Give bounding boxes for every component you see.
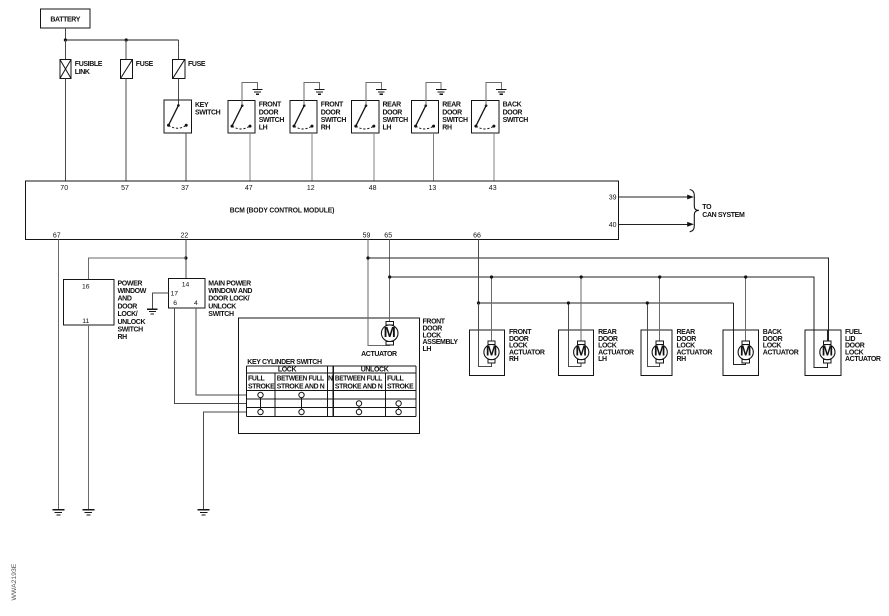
label N: [328, 376, 333, 383]
svg-text:RH: RH: [677, 356, 687, 363]
wire to fuse F2: [177, 40, 179, 59]
svg-text:BATTERY: BATTERY: [50, 17, 80, 24]
fusible link: [60, 59, 103, 78]
back door lock actuator box: [723, 329, 799, 376]
front door lock assembly LH box: [238, 318, 458, 434]
wire bus2 inside fuel lid box: [814, 330, 827, 367]
wire BCM pin 66 down: [478, 239, 480, 303]
svg-text:SWITCH: SWITCH: [118, 327, 144, 334]
pin 57 label: [121, 185, 129, 192]
label actuator: [361, 351, 397, 358]
pin 12 label: [307, 185, 315, 192]
svg-text:DOOR: DOOR: [503, 109, 523, 116]
svg-text:37: 37: [181, 185, 189, 192]
svg-text:SWITCH: SWITCH: [208, 311, 234, 318]
pin 59 label: [363, 232, 371, 239]
svg-text:16: 16: [82, 283, 90, 290]
wire back door switch to BCM: [493, 133, 495, 181]
fuse F1: [120, 59, 153, 78]
ground main switch: [147, 309, 157, 314]
rear door lock actuator RH motor: [652, 341, 667, 363]
svg-text:M: M: [654, 344, 665, 359]
pin 43 label: [489, 185, 497, 192]
pin 39 label: [609, 195, 617, 202]
svg-text:17: 17: [171, 291, 179, 298]
wire CAN low (pin 40): [619, 223, 688, 225]
svg-text:40: 40: [609, 222, 617, 229]
wire BCM pin 59 to actuator motor minus: [368, 239, 390, 345]
wire key switch to BCM pin 37: [185, 133, 187, 181]
junction bus2 rear door lock actuator RH: [658, 275, 661, 278]
label full stroke lock: [248, 376, 275, 391]
wire rear door switch LH to ground: [366, 82, 381, 105]
svg-text:SWITCH: SWITCH: [442, 117, 468, 124]
svg-text:WWA2193E: WWA2193E: [11, 563, 18, 600]
ground switch RH: [82, 510, 94, 515]
svg-text:FULL: FULL: [387, 376, 404, 383]
wire bus3 inside back door box: [734, 330, 746, 364]
ground front door switch LH: [252, 90, 262, 95]
label key cylinder switch: [247, 359, 322, 366]
wire front door switch LH to BCM: [249, 133, 251, 181]
bus 1 wire (pin 59 to fuel lid motor): [368, 258, 828, 341]
svg-text:MAIN POWER: MAIN POWER: [208, 280, 251, 287]
label full stroke unlock: [387, 376, 414, 391]
svg-text:LOCK: LOCK: [278, 367, 297, 374]
svg-text:59: 59: [363, 232, 371, 239]
ground key cylinder: [198, 510, 210, 515]
wire bus2 to back door lock actuator plus: [745, 277, 747, 341]
wire main switch pin 6 to key cylinder row 2: [175, 308, 247, 404]
junction bus3 rear door lock actuator RH: [646, 301, 649, 304]
junction fuse feed: [125, 38, 128, 41]
wire bus3 to rear door lock actuator LH minus: [568, 303, 581, 366]
rear door switch RH: [411, 100, 468, 133]
svg-text:70: 70: [60, 185, 68, 192]
pin 67 label: [53, 232, 61, 239]
svg-text:UNLOCK: UNLOCK: [118, 319, 146, 326]
svg-text:POWER: POWER: [118, 280, 143, 287]
wire front door switch RH to ground: [304, 82, 319, 105]
svg-text:43: 43: [489, 185, 497, 192]
wire fusible link to BCM pin 70: [64, 79, 66, 181]
svg-text:M: M: [822, 344, 833, 359]
svg-text:47: 47: [245, 185, 253, 192]
wire to fusible link: [64, 40, 66, 59]
wire main switch pin 17 to ground: [152, 293, 168, 309]
brace to CAN system: [690, 190, 699, 232]
door lock actuator motor M1: [381, 321, 398, 345]
wire fuse F1 to BCM pin 57: [125, 79, 127, 181]
pin 70 label: [60, 185, 68, 192]
svg-text:FUSIBLE: FUSIBLE: [75, 61, 103, 68]
junction bus2 back door lock actuator: [744, 275, 747, 278]
junction bus3 rear door lock actuator LH: [567, 301, 570, 304]
front door switch RH: [290, 100, 347, 133]
wire back door switch to ground: [486, 82, 501, 105]
svg-text:4: 4: [194, 300, 198, 307]
svg-text:LH: LH: [383, 125, 392, 132]
power window and door lock/unlock switch RH: [63, 279, 146, 341]
ground back door switch: [496, 90, 506, 95]
svg-text:13: 13: [429, 185, 437, 192]
svg-text:FULL: FULL: [248, 376, 265, 383]
wire bus3 to rear door lock actuator RH minus: [647, 303, 659, 366]
svg-text:57: 57: [121, 185, 129, 192]
svg-text:11: 11: [82, 318, 89, 325]
svg-text:FUSE: FUSE: [136, 61, 154, 68]
junction pin 65 bus 2: [388, 275, 391, 278]
svg-text:LOCK/: LOCK/: [118, 311, 138, 318]
svg-text:WINDOW AND: WINDOW AND: [208, 288, 252, 295]
junction bus2 front door lock actuator RH: [490, 275, 493, 278]
svg-text:WINDOW: WINDOW: [118, 288, 147, 295]
pin 65 label: [384, 232, 392, 239]
arrow pin 40: [687, 222, 694, 227]
svg-text:66: 66: [473, 232, 481, 239]
fuel lid door lock actuator motor: [820, 341, 835, 363]
front door lock actuator RH motor: [484, 341, 499, 363]
svg-text:M: M: [486, 344, 497, 359]
junction pin 59 bus 1: [366, 256, 369, 259]
label between lock: [277, 376, 325, 391]
feed bus wire: [65, 39, 178, 41]
bus 2 wire (pin 65 to actuators): [390, 277, 814, 330]
svg-text:RH: RH: [442, 125, 452, 132]
wire bus3 to front door lock actuator RH minus: [479, 303, 492, 366]
svg-text:CAN SYSTEM: CAN SYSTEM: [702, 212, 745, 219]
front door lock actuator RH box: [469, 329, 545, 376]
junction bus2 rear door lock actuator LH: [580, 275, 583, 278]
svg-text:SWITCH: SWITCH: [321, 117, 347, 124]
svg-text:14: 14: [182, 281, 190, 288]
svg-text:REAR: REAR: [442, 102, 461, 109]
wire key cylinder row 3 to ground: [204, 412, 247, 510]
pin 66 label: [473, 232, 481, 239]
bus 3 wire (pin 66 to actuators): [479, 303, 734, 330]
svg-text:FRONT: FRONT: [321, 102, 344, 109]
main power window and door lock/unlock switch: [168, 279, 252, 318]
svg-text:REAR: REAR: [383, 102, 402, 109]
fuse F2: [173, 59, 206, 78]
rear door switch LH: [352, 100, 409, 133]
wire rear door switch RH to BCM: [433, 133, 435, 181]
svg-text:DOOR: DOOR: [383, 109, 403, 116]
svg-text:DOOR: DOOR: [118, 303, 138, 310]
svg-text:STROKE AND N: STROKE AND N: [277, 384, 325, 391]
wire switch RH pin 11 to ground: [87, 325, 89, 510]
wire bus2 to rear door lock actuator RH plus: [659, 277, 661, 341]
rear door lock actuator RH box: [641, 329, 712, 376]
svg-text:DOOR: DOOR: [321, 109, 341, 116]
svg-text:67: 67: [53, 232, 61, 239]
svg-text:SWITCH: SWITCH: [195, 110, 221, 117]
svg-text:UNLOCK: UNLOCK: [361, 367, 389, 374]
svg-text:SWITCH: SWITCH: [503, 117, 529, 124]
svg-text:KEY: KEY: [195, 102, 209, 109]
svg-text:DOOR: DOOR: [442, 109, 462, 116]
label UNLOCK: [361, 367, 389, 374]
pin 47 label: [245, 185, 253, 192]
svg-text:65: 65: [384, 232, 392, 239]
svg-text:STROKE: STROKE: [387, 384, 414, 391]
key cylinder switch table grid: [246, 366, 416, 417]
svg-text:SWITCH: SWITCH: [259, 117, 285, 124]
wire branch to power window switch RH pin 16: [88, 258, 186, 279]
ground pin 67: [52, 510, 64, 515]
svg-text:DOOR: DOOR: [259, 109, 279, 116]
svg-text:BETWEEN FULL: BETWEEN FULL: [335, 376, 383, 383]
svg-text:FRONT: FRONT: [259, 102, 282, 109]
rear door lock actuator LH motor: [574, 341, 589, 363]
svg-text:RH: RH: [118, 334, 128, 341]
svg-text:6: 6: [173, 300, 177, 307]
fuel lid door lock actuator box: [805, 329, 881, 376]
svg-text:39: 39: [609, 195, 617, 202]
svg-text:ACTUATOR: ACTUATOR: [845, 356, 881, 363]
wire BCM pin 65 to actuator motor plus: [389, 239, 391, 321]
wire fuse F2 to key switch: [177, 79, 179, 106]
svg-text:RH: RH: [509, 356, 519, 363]
back door switch: [472, 100, 529, 133]
wire front door switch RH to BCM: [311, 133, 313, 181]
wire CAN high (pin 39): [619, 196, 688, 198]
ground rear door switch LH: [376, 90, 386, 95]
rear door lock actuator LH box: [558, 329, 634, 376]
svg-text:TO: TO: [702, 204, 712, 211]
label between unlock: [335, 376, 383, 391]
svg-text:N: N: [328, 376, 333, 383]
svg-text:BCM (BODY CONTROL MODULE): BCM (BODY CONTROL MODULE): [230, 208, 335, 215]
junction pin 22 branch: [184, 256, 187, 259]
svg-text:STROKE AND N: STROKE AND N: [335, 384, 383, 391]
pin 37 label: [181, 185, 189, 192]
wire to fuse F1: [125, 40, 127, 59]
pin 13 label: [429, 185, 437, 192]
label TO CAN SYSTEM: [702, 204, 745, 219]
svg-text:M: M: [576, 344, 587, 359]
arrow pin 39: [687, 195, 694, 200]
svg-text:LH: LH: [598, 356, 607, 363]
wire bus2 to rear door lock actuator LH plus: [580, 277, 582, 341]
svg-text:BACK: BACK: [503, 102, 522, 109]
svg-text:KEY CYLINDER SWITCH: KEY CYLINDER SWITCH: [247, 359, 322, 366]
key cylinder switch contacts: [258, 392, 402, 414]
svg-text:M: M: [384, 325, 396, 341]
pin 48 label: [369, 185, 377, 192]
ground front door switch RH: [314, 90, 324, 95]
wire BCM pin 67 to ground: [57, 239, 59, 509]
wire BCM pin 22 to main switch pin 14: [185, 239, 187, 278]
pin 40 label: [609, 222, 617, 229]
wire rear door switch LH to BCM: [373, 133, 375, 181]
svg-text:LH: LH: [423, 346, 432, 353]
svg-text:RH: RH: [321, 125, 331, 132]
svg-text:SWITCH: SWITCH: [383, 117, 409, 124]
wire battery to feed bus: [64, 28, 66, 40]
svg-text:22: 22: [181, 232, 189, 239]
back door lock actuator motor: [738, 341, 753, 363]
front door switch LH: [228, 100, 285, 133]
svg-text:UNLOCK: UNLOCK: [208, 303, 236, 310]
svg-text:DOOR LOCK/: DOOR LOCK/: [208, 296, 249, 303]
svg-text:FUSE: FUSE: [188, 61, 206, 68]
svg-text:48: 48: [369, 185, 377, 192]
svg-text:BETWEEN FULL: BETWEEN FULL: [277, 376, 325, 383]
junction pin 66 bus 3: [477, 301, 480, 304]
svg-text:ACTUATOR: ACTUATOR: [361, 351, 397, 358]
svg-text:M: M: [740, 344, 751, 359]
svg-text:12: 12: [307, 185, 315, 192]
label LOCK: [278, 367, 297, 374]
battery B1: [40, 9, 90, 28]
svg-text:ACTUATOR: ACTUATOR: [763, 349, 799, 356]
svg-text:LH: LH: [259, 125, 268, 132]
wire rear door switch RH to ground: [426, 82, 441, 105]
pin 22 label: [181, 232, 189, 239]
figure code WWA2193E: [11, 563, 18, 600]
wire bus1 to fuel lid door lock actuator plus: [826, 330, 828, 340]
wire bus2 to front door lock actuator RH plus: [491, 277, 493, 341]
key switch: [164, 100, 221, 133]
svg-text:LINK: LINK: [75, 69, 90, 76]
wire main switch pin 4 to key cylinder row 1: [196, 308, 246, 395]
junction battery feed: [64, 38, 67, 41]
wire front door switch LH to ground: [242, 82, 257, 105]
svg-text:STROKE: STROKE: [248, 384, 275, 391]
ground rear door switch RH: [436, 90, 446, 95]
BCM U1 (body control module): [25, 181, 618, 239]
svg-text:AND: AND: [118, 296, 132, 303]
